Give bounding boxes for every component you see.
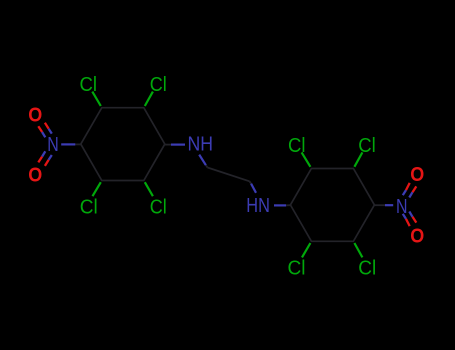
nitro group 2: N=O lower double bond line A (blue half) <box>409 212 412 217</box>
nitro group 1: N=O lower double bond line A (blue half) <box>42 151 45 156</box>
nitro group 1: N=O lower double bond line A (red half) <box>38 157 42 163</box>
bond N2-C to ring 2 : carbon half <box>286 204 290 206</box>
bond C-Cl (ring1 bottom-right) <box>145 182 153 196</box>
nitro group 1: N=O lower double bond line B (blue half) <box>49 155 52 160</box>
bond C-Cl (ring2 bottom-right) <box>354 243 362 257</box>
svg-text:O: O <box>410 164 424 186</box>
nitro group 2: N=O upper double bond line B (red half) <box>406 183 410 190</box>
bond C-Cl (ring2 top-left) <box>302 152 311 166</box>
bond C-Cl (ring1 bottom-left) <box>93 182 101 196</box>
bond N2-C to ring 2 : nitrogen half <box>274 204 286 206</box>
bond C-Cl (ring1 top-right) <box>145 92 153 106</box>
bond N1-CH2 (carbon stub) <box>206 165 208 167</box>
nitro group 2: N=O upper double bond line A (red half) <box>413 186 417 192</box>
svg-text:Cl: Cl <box>288 135 306 157</box>
bond N1-CH2 (blue half) <box>199 155 206 166</box>
svg-text:HN: HN <box>246 195 270 217</box>
nitro group 2: N=O lower double bond line B (red half) <box>406 219 410 226</box>
benzene ring 1 (left, carbon skeleton) <box>81 108 165 181</box>
bond C-Cl (ring2 top-right) <box>354 152 362 166</box>
bond CH2-N2 (blue half) <box>251 184 256 193</box>
nitro group 2: N=O lower double bond line A (red half) <box>413 217 417 223</box>
nitro group 2: N=O lower double bond line B (blue half) <box>403 214 406 219</box>
nitro group 1: N=O upper double bond line A (blue half) <box>42 132 45 137</box>
svg-text:Cl: Cl <box>80 74 98 96</box>
bond C-N to amine NH 1 : nitrogen half <box>171 144 185 146</box>
bond C-N to nitro group 1 : carbon half <box>75 143 81 145</box>
svg-text:Cl: Cl <box>358 135 376 157</box>
bond C-N to nitro group 2 : nitrogen half <box>385 204 393 206</box>
svg-text:Cl: Cl <box>150 74 167 96</box>
svg-text:O: O <box>28 105 42 127</box>
bond C-Cl (ring2 bottom-left) <box>302 243 310 257</box>
bond CH2-N2 (carbon stub) <box>250 181 252 183</box>
svg-text:Cl: Cl <box>150 196 167 218</box>
benzene ring 2 (right, carbon skeleton) <box>290 169 374 242</box>
svg-text:Cl: Cl <box>358 258 376 280</box>
svg-text:N: N <box>396 196 408 218</box>
svg-text:O: O <box>28 164 42 186</box>
bond C-N to amine NH 1 : carbon half <box>165 144 171 146</box>
svg-text:N: N <box>47 134 59 156</box>
bond C-N to nitro group 2 : carbon half <box>374 204 385 206</box>
svg-text:Cl: Cl <box>80 196 98 218</box>
nitro group 1: N=O upper double bond line B (blue half) <box>49 129 52 134</box>
nitro group 1: N=O lower double bond line B (red half) <box>45 160 49 166</box>
nitro group 1: N=O upper double bond line A (red half) <box>38 126 42 132</box>
svg-text:Cl: Cl <box>288 258 306 280</box>
bond CH2-CH2 (carbon-carbon) <box>208 168 250 182</box>
bond C-N to nitro group 1 : nitrogen half <box>61 143 75 145</box>
svg-text:NH: NH <box>188 134 214 156</box>
nitro group 1: N=O upper double bond line B (red half) <box>45 123 49 129</box>
nitro group 2: N=O upper double bond line A (blue half) <box>409 192 412 197</box>
bond C-Cl (ring1 top-left) <box>92 92 101 106</box>
nitro group 2: N=O upper double bond line B (blue half) <box>403 190 406 195</box>
svg-text:O: O <box>410 226 424 248</box>
